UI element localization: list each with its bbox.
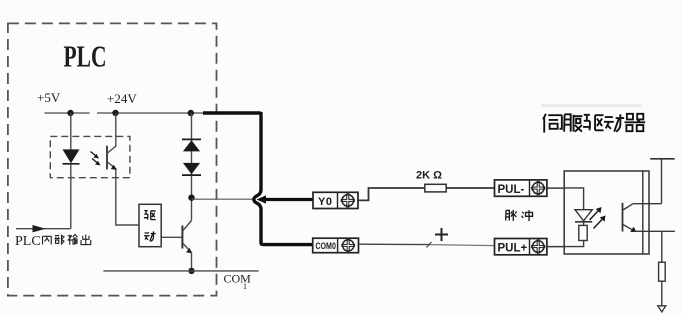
svg-text:+5V: +5V xyxy=(37,90,61,105)
ghost faint text xyxy=(541,104,642,107)
terminal Y0 xyxy=(313,192,358,208)
LED D3 in driver xyxy=(575,210,592,221)
wire PUL- to driver box xyxy=(547,187,564,189)
svg-text:Y0: Y0 xyxy=(318,196,332,208)
label + polarity xyxy=(435,234,448,236)
svg-text:PUL+: PUL+ xyxy=(498,242,528,254)
PLC dashed enclosure box xyxy=(8,23,217,295)
wire Q1 collector up xyxy=(191,198,193,221)
terminal PUL- xyxy=(495,180,547,196)
wire Y0 to resistor xyxy=(359,188,425,200)
wire COM rail xyxy=(103,270,258,272)
transistor Q1 xyxy=(181,226,183,249)
node on +24V rail right xyxy=(188,110,194,116)
screw PUL+ xyxy=(531,240,545,254)
wire phototransistor emitter to drive box xyxy=(116,169,139,225)
wire R2 to ground xyxy=(661,281,663,306)
wire COM0 to PUL+ xyxy=(359,243,430,245)
light arrows inside U1 xyxy=(91,152,97,157)
node on +5V rail xyxy=(67,110,73,116)
ground arrow xyxy=(658,306,666,312)
screw COM0 xyxy=(341,239,355,253)
screw Y0 xyxy=(341,193,355,207)
terminal COM0 xyxy=(313,238,359,253)
servo driver box xyxy=(564,171,649,254)
wire resistor to PUL- xyxy=(446,187,494,189)
phototransistor Q3 in driver xyxy=(622,203,624,232)
drive box 驱动 xyxy=(139,204,161,246)
wire Q3 collector rail xyxy=(633,203,662,205)
svg-text:1: 1 xyxy=(243,282,247,291)
wire LED to resistor R3 xyxy=(583,222,585,226)
svg-text:+24V: +24V xyxy=(107,91,137,106)
svg-text:PUL-: PUL- xyxy=(498,184,525,196)
wire thick to Y0 with arrowhead xyxy=(260,198,314,201)
screw PUL- xyxy=(531,181,545,195)
inner vertical line of driver box xyxy=(642,171,644,254)
node emitter COM junction xyxy=(188,268,194,274)
svg-text:COM: COM xyxy=(224,272,252,286)
wire PUL- entry to LED D3 xyxy=(564,188,583,210)
wire node to hop (thin) xyxy=(192,198,254,200)
svg-text:PLC: PLC xyxy=(15,234,41,249)
tick on wire xyxy=(427,242,432,248)
wire Q3 emitter rail xyxy=(634,230,675,232)
wire +5V rail xyxy=(45,112,90,114)
label 脉冲 xyxy=(506,210,517,221)
wire Q1 emitter down xyxy=(191,253,193,271)
wire emitter to resistor R2 xyxy=(661,231,663,262)
resistor R1 2K xyxy=(425,184,446,192)
wire thick main 24V loop xyxy=(203,113,314,245)
terminal PUL+ xyxy=(495,239,547,255)
wire diode branch vertical xyxy=(191,113,193,198)
wire PUL+ to driver box xyxy=(547,246,564,248)
diode D2 xyxy=(183,163,200,174)
diode D1 xyxy=(182,138,201,140)
svg-text:COM0: COM0 xyxy=(315,241,336,251)
wire +24V rail xyxy=(97,112,204,114)
node on +24V rail xyxy=(112,110,118,116)
label 伺服驱动器 xyxy=(543,114,645,133)
arrow PLC internal output xyxy=(16,228,71,230)
optocoupler U1 dashed box xyxy=(50,136,130,177)
light arrows in driver optocoupler xyxy=(590,211,599,220)
resistor R2 xyxy=(659,262,666,281)
wire +5V to LED xyxy=(70,113,72,149)
LED of optocoupler U1 xyxy=(63,149,80,163)
wire drive to transistor base xyxy=(161,236,182,238)
svg-text:2K Ω: 2K Ω xyxy=(416,170,442,182)
power rail bar top xyxy=(650,158,675,160)
wire R3 to PUL+ entry xyxy=(564,241,583,247)
node diode bottom junction xyxy=(188,195,194,201)
wire +24V to phototransistor collector xyxy=(115,113,117,146)
label PLC内部输出 xyxy=(15,234,91,249)
phototransistor of U1 xyxy=(106,146,108,170)
svg-text:PLC: PLC xyxy=(64,39,107,74)
wire LED cathode down xyxy=(70,164,72,229)
resistor R3 xyxy=(579,225,587,240)
